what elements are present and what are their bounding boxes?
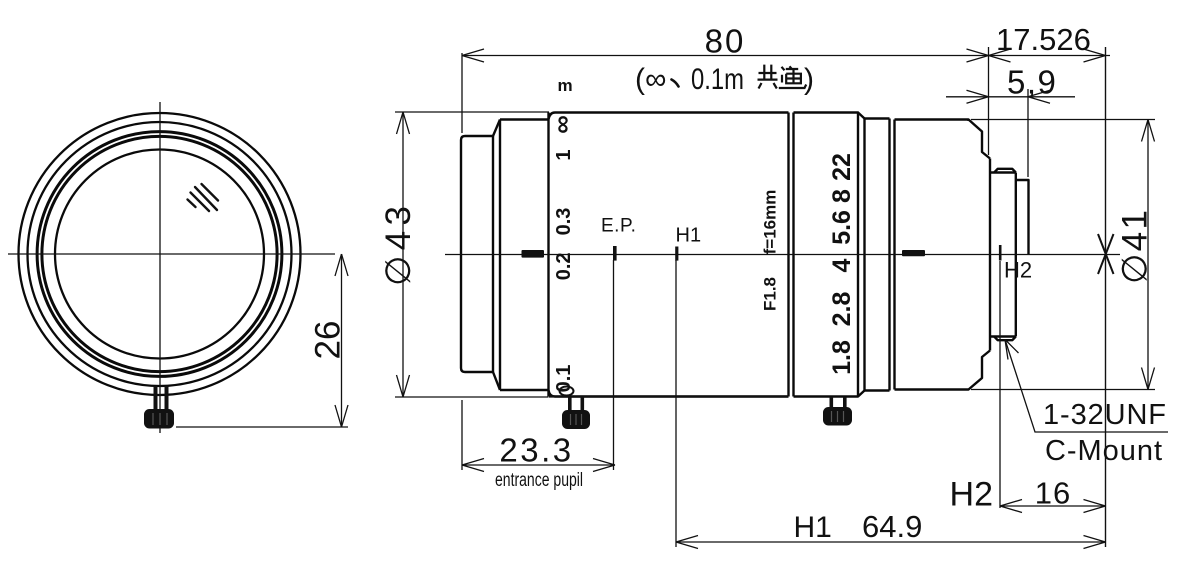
thread lip bottom	[994, 337, 1016, 341]
svg-text:(∞: (∞	[635, 63, 666, 96]
extension line flange face	[988, 47, 990, 155]
svg-text:entrance pupil: entrance pupil	[495, 470, 583, 491]
image plane X mark	[1098, 234, 1114, 274]
front view second ring circle	[28, 122, 292, 386]
svg-text:1: 1	[553, 149, 575, 160]
svg-text:f=16mm: f=16mm	[761, 190, 780, 255]
H2 tick	[999, 245, 1002, 261]
svg-text:80: 80	[705, 23, 746, 60]
svg-text:5.6: 5.6	[828, 210, 856, 245]
svg-text:∞: ∞	[547, 115, 577, 134]
dimension 26 extension line	[176, 426, 348, 428]
front view outer circle (barrel φ43)	[19, 113, 301, 395]
groove to rear barrel	[893, 120, 895, 390]
glass reflection hatch marks	[188, 184, 219, 211]
svg-text:∅43: ∅43	[379, 206, 418, 286]
rear barrel and mount profile	[895, 120, 991, 390]
front focus index bar	[522, 250, 545, 258]
lens body silhouette	[461, 113, 1029, 397]
front view bezel circle outer	[37, 132, 282, 377]
svg-text:26: 26	[309, 321, 348, 360]
svg-text:): )	[804, 63, 814, 96]
dimension 23.3 extension left	[461, 400, 463, 470]
svg-text:4: 4	[828, 258, 856, 272]
extension line front face	[461, 53, 463, 133]
dimension 26 line with arrows	[335, 254, 348, 427]
EP extension line	[613, 260, 615, 470]
side knob 1 boss ellipse	[560, 387, 574, 396]
dimension H1 64.9 line	[676, 541, 1106, 543]
dimension 5.9 line	[946, 96, 1075, 98]
svg-text:m: m	[557, 76, 572, 95]
svg-text:1.8: 1.8	[828, 340, 856, 375]
svg-text:22: 22	[828, 153, 856, 181]
svg-text:0.2: 0.2	[553, 252, 575, 280]
rear neck upper half	[1016, 180, 1029, 254]
front view glass edge circle	[55, 150, 264, 359]
thread lip top	[994, 169, 1016, 173]
side view horizontal centerline	[445, 254, 1120, 256]
svg-text:23.3: 23.3	[499, 432, 573, 469]
side knob 2 stems	[830, 397, 847, 409]
svg-text:16: 16	[1035, 476, 1071, 511]
side knob 1 stems	[568, 397, 584, 411]
front view vertical centerline	[159, 102, 161, 433]
svg-text:H2: H2	[1004, 258, 1032, 283]
narrow ring	[865, 119, 890, 391]
chamfer front cap to second ring	[493, 120, 500, 391]
dimension 80 line	[462, 55, 989, 57]
svg-text:∅41: ∅41	[1116, 210, 1155, 284]
rear index bar	[902, 250, 925, 256]
svg-text:E.P.: E.P.	[601, 216, 636, 237]
front view lock screw stems	[154, 386, 169, 410]
front view horizontal centerline	[8, 253, 335, 255]
phi41 extension bottom	[971, 389, 1155, 391]
svg-text:H2: H2	[950, 476, 993, 514]
phi43 dimension line	[402, 112, 404, 397]
second ring	[500, 120, 549, 391]
EP tick	[613, 246, 617, 261]
image plane line	[1105, 47, 1107, 547]
front view lock screw knob	[144, 409, 174, 429]
kanji tsuu (through)	[779, 66, 806, 88]
phi41 extension top	[971, 119, 1155, 121]
svg-text:17.526: 17.526	[996, 22, 1091, 57]
dimension 16 line	[1000, 505, 1106, 507]
ideographic comma	[672, 80, 679, 87]
front view bezel circle inner	[42, 136, 277, 371]
svg-text:F1.8: F1.8	[761, 277, 780, 311]
dimension 23.3 line	[462, 464, 615, 466]
svg-text:1-32UNF: 1-32UNF	[1043, 399, 1166, 431]
svg-text:H1: H1	[794, 511, 832, 544]
front cap	[461, 136, 493, 372]
flange face line	[989, 159, 991, 351]
focus scale numbers	[547, 115, 577, 392]
aperture scale numbers	[828, 153, 856, 375]
aperture ring	[794, 113, 865, 397]
side knob 1	[562, 410, 590, 429]
H2 extension line	[999, 261, 1001, 508]
svg-text:2.8: 2.8	[828, 292, 856, 327]
H1 tick	[675, 247, 678, 261]
lens name label	[761, 190, 780, 311]
phi41 dimension line	[1147, 120, 1149, 390]
svg-text:5,9: 5,9	[1007, 64, 1057, 101]
kanji kyou (common)	[758, 65, 778, 89]
focus ring	[549, 113, 789, 397]
thread face line	[1015, 173, 1017, 337]
leader line C-mount	[1005, 340, 1168, 433]
svg-text:0.3: 0.3	[553, 208, 575, 236]
H1 extension line	[675, 260, 677, 547]
svg-text:64.9: 64.9	[862, 509, 922, 544]
phi43 extension bottom	[395, 396, 548, 398]
phi43 extension top	[395, 111, 549, 113]
barrel bottom edge over boss	[549, 395, 789, 397]
ring boundary lines	[789, 113, 794, 397]
svg-text:8: 8	[828, 189, 856, 203]
svg-text:0.1m: 0.1m	[691, 63, 744, 96]
svg-text:C-Mount: C-Mount	[1045, 435, 1162, 467]
thread cylinder	[990, 173, 1016, 337]
svg-text:H1: H1	[676, 225, 702, 247]
svg-text:0.1: 0.1	[553, 365, 575, 393]
extension line 5.9 right	[1027, 89, 1029, 177]
side knob 2	[823, 407, 852, 426]
dimension 17.526 line	[989, 55, 1111, 57]
